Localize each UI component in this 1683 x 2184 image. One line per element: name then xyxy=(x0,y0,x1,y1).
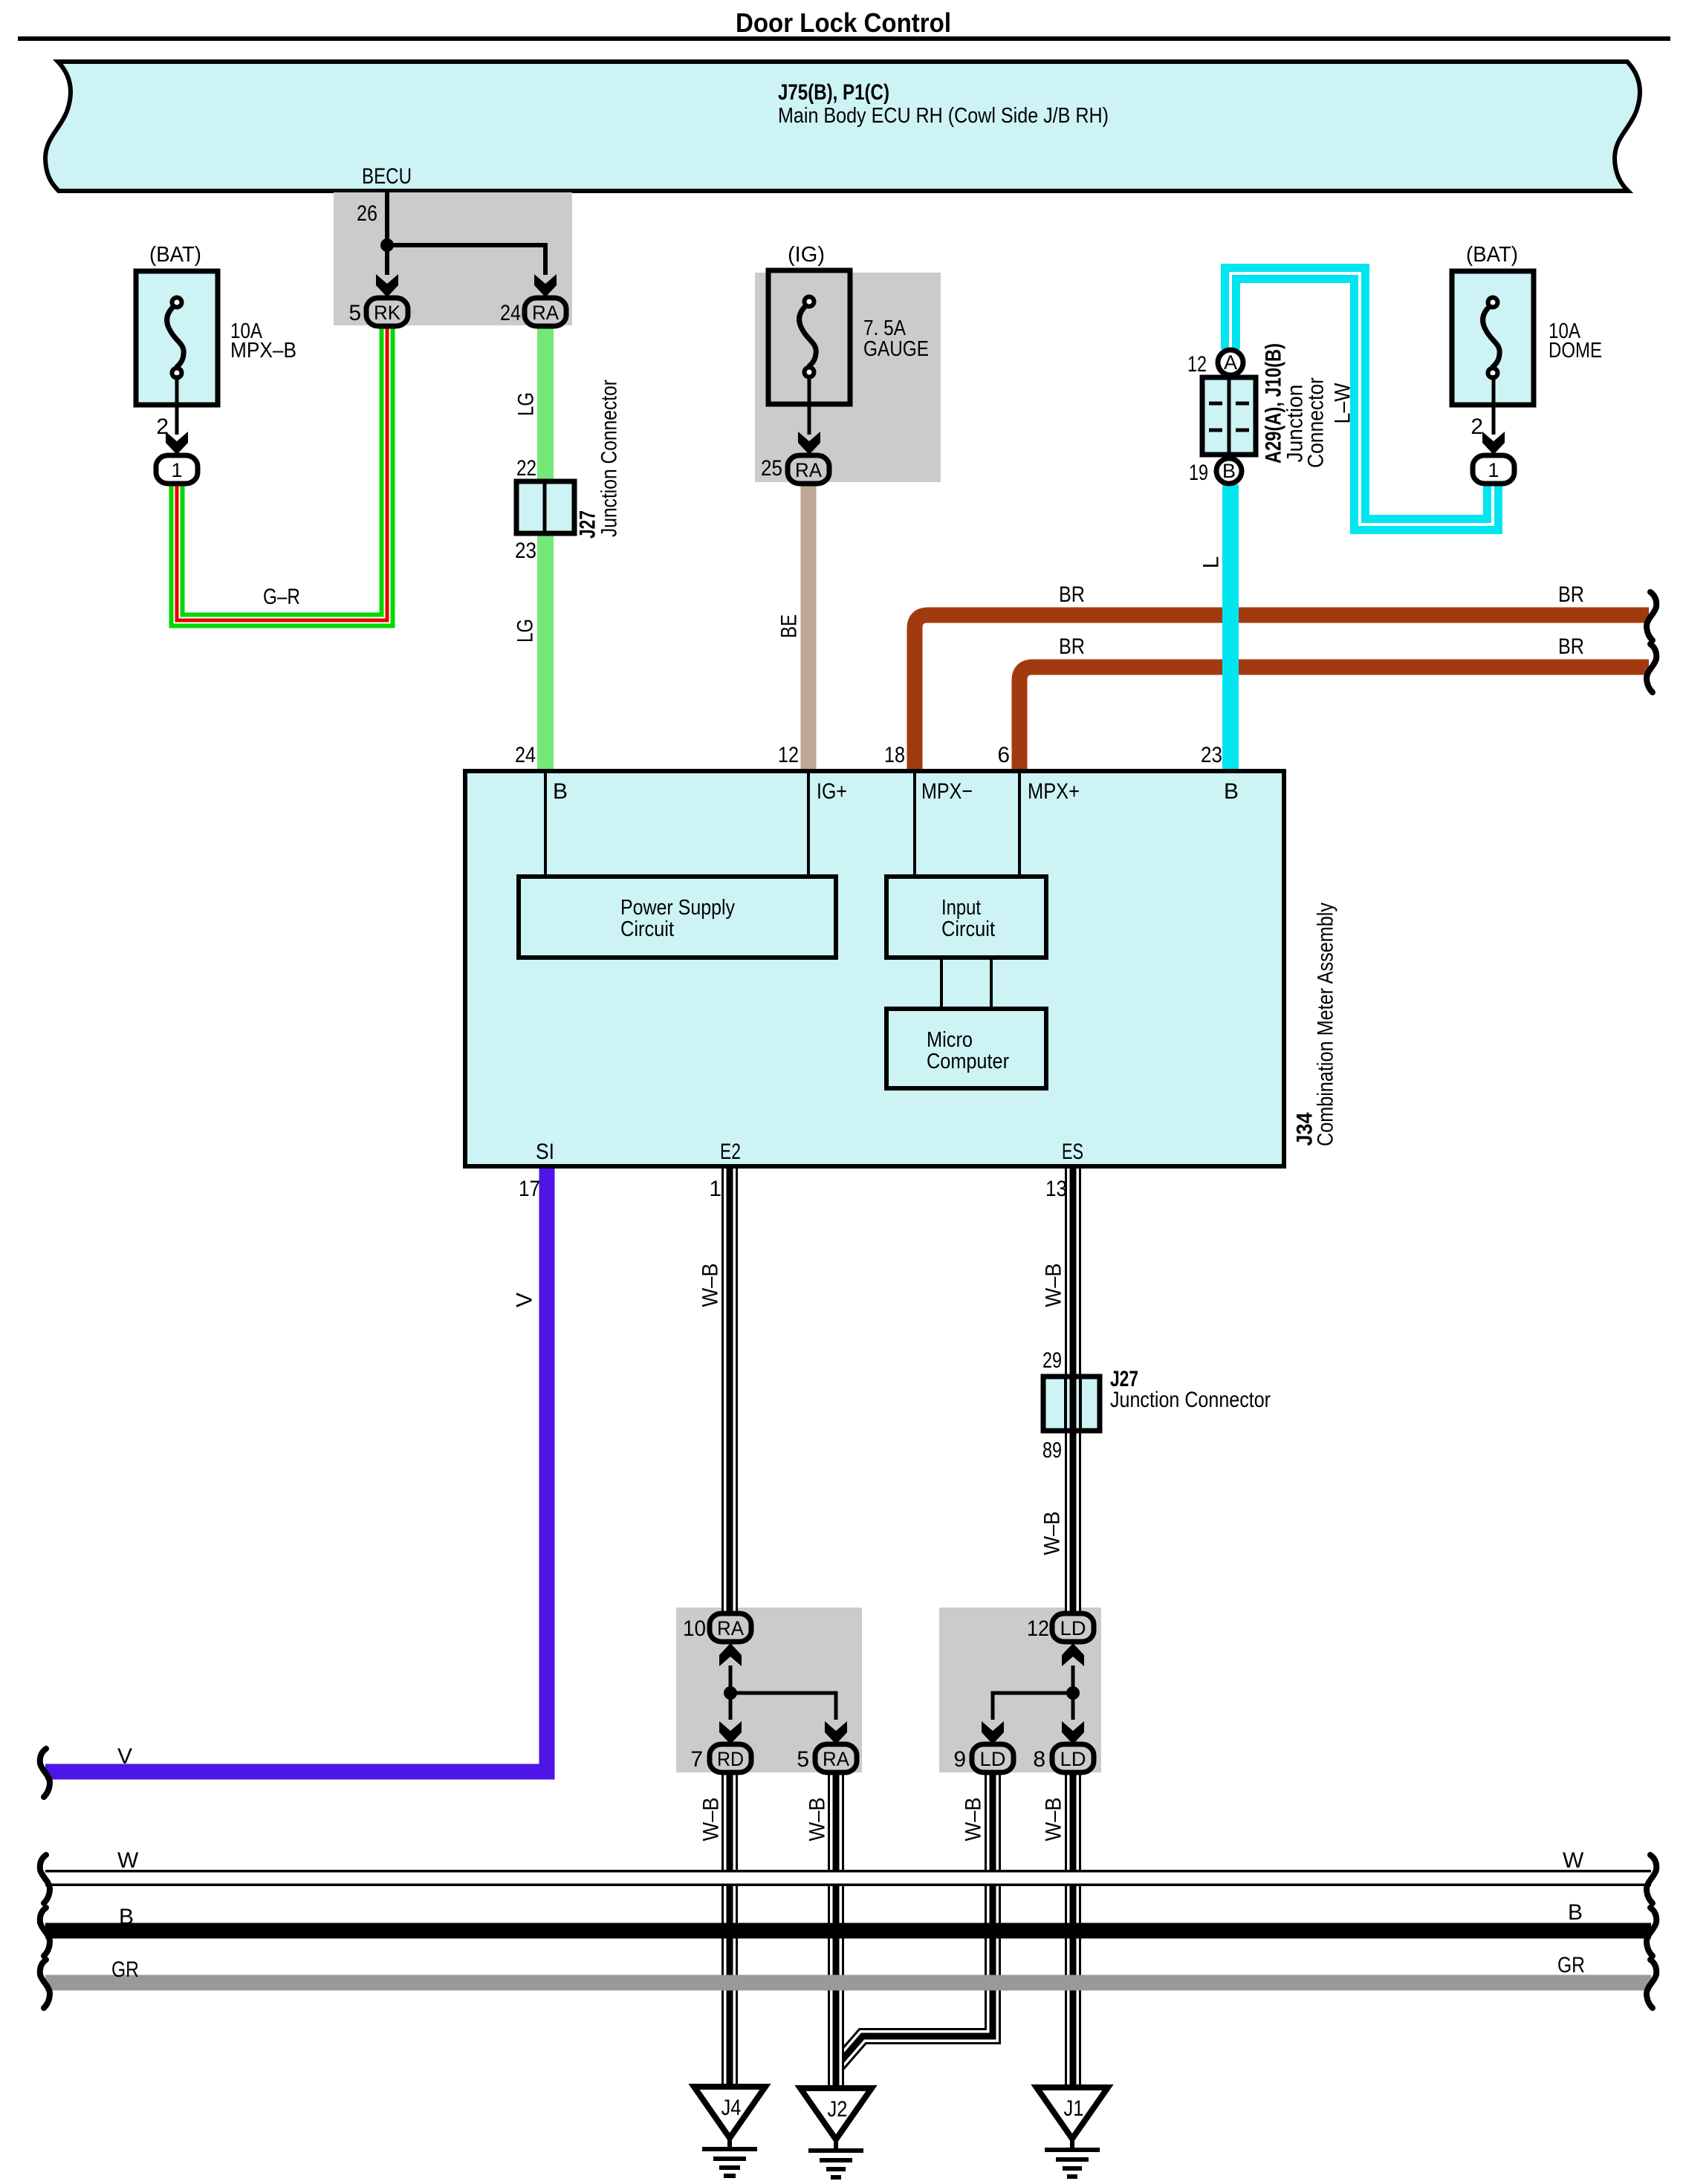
arrow into LD 9 xyxy=(982,1721,1004,1744)
arrow into RA 25 xyxy=(798,432,820,455)
svg-text:89: 89 xyxy=(1042,1438,1062,1463)
svg-text:MPX+: MPX+ xyxy=(1028,779,1080,804)
svg-text:Micro: Micro xyxy=(927,1028,973,1052)
svg-text:2: 2 xyxy=(1470,415,1483,439)
svg-text:W–B: W–B xyxy=(1040,1512,1065,1556)
arrow into RD 7 xyxy=(719,1721,742,1744)
wire W horizontal xyxy=(45,1870,1651,1886)
svg-text:RA: RA xyxy=(532,302,559,324)
terminal RA pin 25 xyxy=(788,455,829,484)
svg-text:(IG): (IG) xyxy=(788,243,825,267)
BECU branch gray box xyxy=(334,192,572,325)
svg-text:LG: LG xyxy=(514,392,539,416)
svg-text:(BAT): (BAT) xyxy=(149,243,201,267)
svg-text:BR: BR xyxy=(1059,582,1085,607)
svg-text:Combination Meter Assembly: Combination Meter Assembly xyxy=(1314,903,1338,1146)
svg-text:17: 17 xyxy=(519,1177,540,1201)
svg-text:J2: J2 xyxy=(828,2097,848,2122)
wire BECU pin 26 xyxy=(385,192,389,275)
wire W-B (RD 7 to ground J4) xyxy=(721,1772,738,2089)
terminal RD pin 7 xyxy=(710,1744,751,1772)
arrow into RA 5 xyxy=(825,1721,847,1744)
svg-text:B: B xyxy=(553,779,568,804)
terminal LD pin 8 xyxy=(1052,1744,1094,1772)
svg-text:LG: LG xyxy=(513,619,538,643)
svg-text:24: 24 xyxy=(515,743,536,767)
junction dot left group xyxy=(724,1686,737,1700)
svg-text:22: 22 xyxy=(516,456,536,481)
stem RA10 to junction xyxy=(729,1665,733,1693)
arrow into terminal 1 (MPX-B) xyxy=(166,432,188,455)
svg-text:B: B xyxy=(1224,779,1239,804)
svg-text:B: B xyxy=(1568,1900,1583,1925)
wire BE (GAUGE RA 25 to meter IG+ pin 12) xyxy=(801,481,817,771)
arrow into RA 10 xyxy=(719,1643,742,1666)
break mark B wire right xyxy=(1647,1908,1656,1956)
fuse 10A DOME xyxy=(1452,271,1534,405)
junction connector J27 (top) xyxy=(516,481,574,533)
svg-text:A: A xyxy=(1224,351,1237,374)
wire W-B (meter E2 pin 1 to RA 10) xyxy=(721,1166,738,1613)
svg-text:LD: LD xyxy=(1060,1617,1086,1639)
wire BR (meter MPX+ pin 6 to right) xyxy=(1019,667,1649,771)
fuse 10A MPX-B xyxy=(136,271,218,405)
svg-text:Computer: Computer xyxy=(927,1050,1009,1073)
wire G-R (fuse MPX-B terminal 1 to BECU RK) xyxy=(177,325,387,620)
ground J1 xyxy=(1037,2087,1108,2139)
terminal LD pin 9 xyxy=(972,1744,1014,1772)
svg-text:Main Body ECU RH (Cowl Side J/: Main Body ECU RH (Cowl Side J/B RH) xyxy=(778,104,1109,128)
svg-text:DOME: DOME xyxy=(1549,339,1602,363)
terminal 1 below DOME xyxy=(1473,455,1514,484)
break mark GR wire left xyxy=(40,1960,50,2008)
junction dot node 26 xyxy=(380,238,394,252)
svg-text:ES: ES xyxy=(1062,1140,1083,1164)
meter internal wire pin 18 MPX- xyxy=(913,771,916,877)
svg-text:10: 10 xyxy=(683,1616,706,1641)
svg-text:W–B: W–B xyxy=(805,1798,830,1842)
break mark B wire left xyxy=(40,1908,50,1956)
arrow into RA 24 xyxy=(534,274,557,297)
break mark W wire left xyxy=(40,1855,50,1903)
junction connector A29(A),J10(B) box xyxy=(1202,377,1256,455)
stem to RD 7 xyxy=(729,1693,733,1720)
svg-text:29: 29 xyxy=(1042,1348,1062,1373)
ground J4 xyxy=(694,2087,765,2138)
svg-text:12: 12 xyxy=(1187,352,1207,377)
svg-text:RD: RD xyxy=(717,1748,744,1770)
terminal RA pin 5 xyxy=(815,1744,857,1772)
svg-text:13: 13 xyxy=(1045,1177,1067,1201)
svg-text:W: W xyxy=(117,1848,139,1873)
svg-text:W–B: W–B xyxy=(699,1798,724,1842)
wire W-B (RA 5 to ground J2) xyxy=(828,1772,844,2090)
input circuit box xyxy=(886,877,1046,958)
right terminal gray box xyxy=(939,1608,1101,1772)
break mark V wire left xyxy=(40,1749,50,1797)
svg-text:J4: J4 xyxy=(721,2096,742,2120)
wire fuse MPX-B to terminal 1 xyxy=(175,375,179,435)
branch to RA 5 xyxy=(730,1693,836,1720)
svg-text:Input: Input xyxy=(941,896,981,920)
terminal RA pin 10 xyxy=(710,1613,751,1642)
branch to LD 9 xyxy=(993,1693,1073,1720)
terminal RK pin 5 xyxy=(366,298,408,326)
svg-text:Circuit: Circuit xyxy=(941,917,995,941)
wire BR (meter MPX- pin 18 to right) xyxy=(915,615,1649,771)
combination meter assembly box J34 xyxy=(465,771,1284,1166)
svg-text:7: 7 xyxy=(690,1747,703,1772)
meter internal wire pin 6 MPX+ xyxy=(1018,771,1021,877)
ground J2 xyxy=(800,2088,872,2139)
title rule xyxy=(18,36,1670,41)
svg-text:1: 1 xyxy=(1488,459,1499,481)
wire W-B (LD 8 to ground J1) xyxy=(1065,1772,1081,2089)
wire W-B (LD 9 jog to ground J2) xyxy=(838,1772,993,2064)
svg-text:W–B: W–B xyxy=(962,1798,986,1842)
wire V (meter SI pin 17 to left) xyxy=(45,1166,547,1772)
svg-text:W–B: W–B xyxy=(1042,1264,1066,1307)
svg-text:1: 1 xyxy=(709,1177,721,1201)
svg-text:5: 5 xyxy=(797,1747,809,1772)
svg-text:Circuit: Circuit xyxy=(620,917,674,941)
svg-text:GAUGE: GAUGE xyxy=(863,337,929,361)
wire B horizontal xyxy=(45,1923,1651,1939)
wire branch to RA 24 xyxy=(387,245,545,275)
svg-text:(BAT): (BAT) xyxy=(1466,243,1518,267)
svg-text:Junction Connector: Junction Connector xyxy=(1110,1388,1271,1412)
svg-text:E2: E2 xyxy=(720,1140,741,1164)
terminal 1 below MPX-B xyxy=(156,455,198,484)
micro computer box xyxy=(886,1009,1046,1088)
svg-text:BE: BE xyxy=(777,614,802,638)
svg-text:G–R: G–R xyxy=(263,585,300,609)
power supply circuit box xyxy=(519,877,836,958)
wires input to micro computer xyxy=(940,958,943,1009)
svg-text:12: 12 xyxy=(778,743,799,767)
svg-text:26: 26 xyxy=(357,201,377,226)
Main Body ECU RH bar J75(B),P1(C) xyxy=(45,62,1640,191)
svg-text:SI: SI xyxy=(536,1140,554,1164)
svg-text:RK: RK xyxy=(374,302,401,324)
svg-text:19: 19 xyxy=(1189,461,1208,485)
terminal A pin 12 xyxy=(1218,350,1243,375)
wire L-W (junction connector A to DOME terminal 1) xyxy=(1230,273,1493,524)
svg-text:LD: LD xyxy=(980,1748,1006,1770)
svg-text:LD: LD xyxy=(1060,1748,1086,1770)
wire W-B (meter ES pin 13 through J27 to LD 12) xyxy=(1065,1166,1081,1613)
terminal LD pin 12 xyxy=(1052,1613,1094,1642)
svg-text:MPX−: MPX− xyxy=(921,779,973,804)
svg-text:23: 23 xyxy=(515,539,536,563)
svg-text:V: V xyxy=(513,1293,537,1307)
svg-text:12: 12 xyxy=(1027,1616,1049,1641)
svg-text:IG+: IG+ xyxy=(817,779,847,804)
svg-text:Junction Connector: Junction Connector xyxy=(597,380,622,537)
break mark GR wire right xyxy=(1647,1960,1656,2008)
svg-text:8: 8 xyxy=(1033,1747,1045,1772)
svg-text:W: W xyxy=(1563,1848,1584,1873)
break mark BR wire 2 right xyxy=(1647,644,1656,692)
svg-text:MPX–B: MPX–B xyxy=(230,339,296,363)
svg-text:BR: BR xyxy=(1059,634,1085,659)
svg-text:1: 1 xyxy=(171,459,182,481)
svg-text:24: 24 xyxy=(500,301,521,325)
terminal B pin 19 xyxy=(1216,458,1242,484)
arrow into terminal 1 (DOME) xyxy=(1482,432,1505,455)
arrow into LD 12 xyxy=(1062,1643,1084,1666)
svg-text:Door Lock Control: Door Lock Control xyxy=(736,7,951,38)
wire GR horizontal xyxy=(45,1975,1651,1991)
svg-text:9: 9 xyxy=(953,1747,966,1772)
arrow into LD 8 xyxy=(1062,1721,1084,1744)
svg-text:Connector: Connector xyxy=(1304,377,1329,468)
meter internal wire pin 24 B xyxy=(544,771,547,877)
wire L (junction connector B to meter pin 23) xyxy=(1222,484,1239,771)
GAUGE fuse gray box xyxy=(755,273,941,482)
svg-text:Power Supply: Power Supply xyxy=(620,896,735,920)
svg-text:6: 6 xyxy=(997,743,1010,767)
svg-text:RA: RA xyxy=(823,1748,849,1770)
left terminal gray box xyxy=(676,1608,862,1772)
wire fuse GAUGE to RA 25 xyxy=(808,375,811,435)
svg-text:V: V xyxy=(117,1744,132,1769)
break mark W wire right xyxy=(1647,1855,1656,1903)
svg-text:B: B xyxy=(1222,460,1236,482)
svg-text:BR: BR xyxy=(1558,582,1584,607)
svg-text:BECU: BECU xyxy=(362,164,412,189)
terminal RA pin 24 xyxy=(525,298,566,326)
stem LD12 to junction xyxy=(1071,1665,1075,1693)
svg-text:L: L xyxy=(1199,556,1224,569)
svg-text:RA: RA xyxy=(795,459,822,481)
stem to LD 8 xyxy=(1071,1693,1075,1720)
svg-text:W–B: W–B xyxy=(1042,1798,1066,1842)
svg-text:18: 18 xyxy=(884,743,905,767)
svg-text:BR: BR xyxy=(1558,634,1584,659)
svg-text:23: 23 xyxy=(1201,743,1222,767)
svg-text:J1: J1 xyxy=(1064,2096,1084,2121)
arrow into RK xyxy=(376,274,398,297)
wire LG (BECU RA 24 to J27 to meter pin 24) xyxy=(537,325,554,771)
svg-text:GR: GR xyxy=(1557,1953,1585,1977)
svg-text:GR: GR xyxy=(111,1957,139,1982)
fuse 7.5A GAUGE xyxy=(768,270,850,404)
meter internal wire pin 12 IG+ xyxy=(807,771,810,877)
junction dot right group xyxy=(1066,1686,1080,1700)
svg-text:25: 25 xyxy=(761,456,782,481)
svg-text:B: B xyxy=(119,1905,134,1929)
svg-text:L–W: L–W xyxy=(1331,383,1355,424)
svg-text:W–B: W–B xyxy=(698,1264,723,1307)
svg-text:5: 5 xyxy=(348,301,361,325)
svg-text:J75(B), P1(C): J75(B), P1(C) xyxy=(778,80,889,105)
break mark BR wire 1 right xyxy=(1647,592,1656,640)
wire fuse DOME to terminal 1 xyxy=(1492,375,1496,435)
svg-text:RA: RA xyxy=(717,1617,744,1639)
